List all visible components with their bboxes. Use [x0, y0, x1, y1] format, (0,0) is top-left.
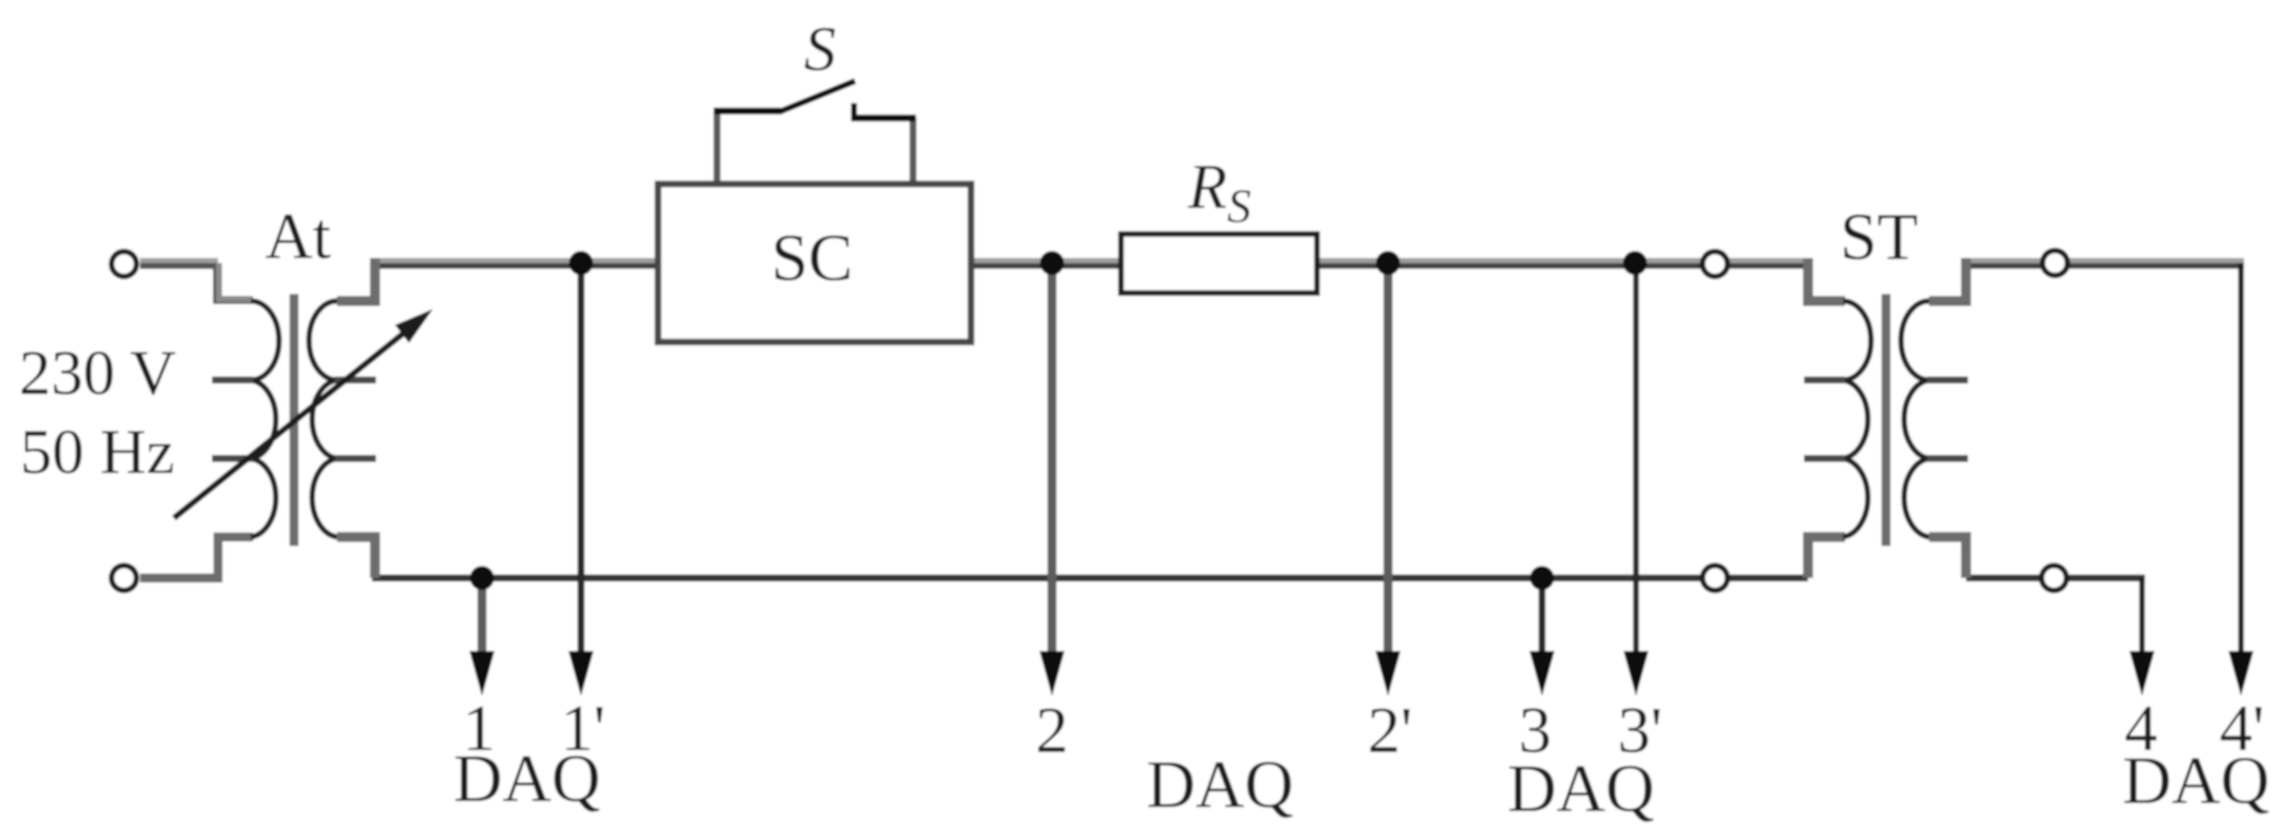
node 3' junction dot on top bus — [1623, 251, 1647, 275]
terminal circle top before ST — [1703, 252, 1728, 277]
svg-text:SC: SC — [771, 221, 853, 295]
ST transformer left lead top — [1808, 258, 1845, 301]
terminal circle bottom right of ST — [2042, 566, 2067, 591]
source terminal lower left — [112, 566, 137, 591]
resistor Rs body — [1121, 234, 1317, 293]
node 2' junction dot — [1376, 251, 1400, 275]
wire bottom bus from autotransformer to ST transformer — [372, 575, 1808, 582]
SC box — [658, 184, 971, 342]
wire tap 1 — [478, 578, 487, 660]
arrowhead 3 — [1530, 651, 1555, 696]
At secondary winding — [309, 301, 337, 537]
node 1 junction dot on bottom bus — [470, 566, 494, 590]
switch S right contact tick — [851, 103, 857, 121]
switch S right contact — [851, 115, 916, 122]
wire tap 2' — [1384, 263, 1393, 660]
svg-text:2': 2' — [1368, 694, 1413, 767]
arrowhead 3' — [1624, 651, 1649, 696]
svg-text:2: 2 — [1036, 694, 1069, 767]
ST primary winding — [1843, 301, 1871, 537]
At secondary bottom lead — [337, 537, 375, 578]
ST core — [1882, 294, 1891, 546]
wire corner down to DAQ 4' — [2238, 263, 2244, 660]
wire to lower source terminal — [140, 537, 253, 578]
ST secondary top lead — [1929, 258, 1966, 301]
svg-text:ST: ST — [1840, 200, 1918, 274]
wire tap 2 — [1048, 263, 1057, 660]
switch S right stub — [910, 118, 917, 182]
svg-text:DAQ: DAQ — [2122, 742, 2269, 818]
wire corner down to DAQ 4 — [2139, 578, 2145, 660]
At primary winding tap ticks — [212, 377, 253, 384]
wire tap 3' — [1633, 263, 1639, 660]
arrowhead 2 — [1040, 651, 1065, 696]
autotransformer At primary winding — [251, 301, 279, 537]
svg-text:230 V: 230 V — [19, 337, 176, 408]
svg-text:At: At — [265, 200, 331, 273]
wire top bus from SC box to resistor — [973, 258, 1119, 264]
ST secondary tap ticks — [1927, 377, 1968, 384]
svg-text:DAQ: DAQ — [1507, 750, 1654, 826]
arrowhead 1 — [470, 651, 495, 696]
switch S left stub — [714, 108, 721, 182]
wire tap 3 — [1539, 578, 1546, 660]
wire top bus from autotransformer to SC box — [375, 258, 656, 264]
At core — [290, 294, 299, 546]
ST secondary winding — [1901, 301, 1929, 537]
arrowhead 1' — [569, 651, 594, 696]
svg-text:50 Hz: 50 Hz — [20, 416, 175, 487]
node 1' junction dot on top bus — [569, 251, 593, 275]
svg-text:DAQ: DAQ — [1146, 746, 1293, 822]
ST primary tap ticks — [1804, 377, 1845, 384]
wire tap 1' — [578, 263, 585, 660]
switch S blade — [779, 81, 855, 112]
switch S left contact — [714, 108, 781, 115]
svg-text:DAQ: DAQ — [453, 740, 600, 816]
arrowhead 2' — [1376, 651, 1401, 696]
source terminal upper left — [112, 252, 137, 277]
At variac arrow — [174, 328, 410, 518]
node 3 junction dot on bottom bus — [1530, 566, 1554, 590]
node 2 junction dot — [1040, 251, 1064, 275]
ST left lead bottom — [1808, 537, 1845, 578]
wire bottom bus left of autotransformer — [140, 575, 222, 582]
At secondary winding tap ticks — [335, 377, 376, 384]
svg-text:S: S — [804, 13, 836, 84]
ST secondary bottom lead — [1929, 537, 1966, 578]
terminal circle bottom before ST — [1703, 566, 1728, 591]
wire top bus from ST transformer right lead to right corner — [1966, 258, 2244, 264]
wire top bus from resistor to ST transformer — [1319, 258, 1808, 264]
terminal circle top right of ST — [2043, 251, 2068, 276]
wire from upper source terminal — [140, 258, 218, 264]
At secondary top lead — [337, 258, 375, 301]
wire bottom bus from ST right lead to corner of DAQ 4 — [1966, 575, 2145, 582]
